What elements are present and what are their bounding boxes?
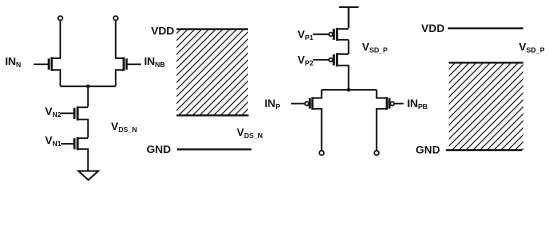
VSD_P level line (top edge of hatched region): [449, 62, 524, 64]
transistor VN1: [61, 137, 88, 171]
svg-text:VN1: VN1: [45, 135, 61, 148]
svg-text:VN2: VN2: [45, 106, 61, 119]
svg-text:VDD: VDD: [421, 23, 444, 35]
svg-text:VP1: VP1: [298, 29, 314, 42]
terminal circle IN_P drain: [319, 151, 324, 156]
svg-text:VDD: VDD: [151, 26, 174, 38]
svg-text:GND: GND: [147, 144, 172, 156]
junction dot PMOS common source node: [347, 88, 351, 92]
svg-text:VP2: VP2: [298, 54, 314, 67]
wire common source (IN_P / IN_PB): [322, 89, 377, 91]
svg-text:VSD_P: VSD_P: [362, 42, 388, 55]
svg-text:VDS_N: VDS_N: [237, 127, 263, 140]
transistor IN_NB: [116, 20, 141, 86]
svg-text:INPB: INPB: [407, 98, 428, 111]
wire VP1 drain to VP2 source: [348, 40, 350, 54]
svg-text:INN: INN: [5, 56, 21, 69]
VDD rail (PMOS circuit): [339, 7, 359, 28]
svg-text:VSD_P: VSD_P: [519, 42, 545, 55]
transistor IN_PB: [377, 90, 404, 151]
terminal circle IN_NB drain: [114, 16, 118, 20]
terminal circle IN_PB drain: [374, 151, 379, 156]
svg-text:VDS_N: VDS_N: [111, 121, 137, 134]
transistor VP2: [313, 53, 349, 90]
wire common source node (NMOS pair): [60, 85, 115, 87]
hatched region PMOS output range: [449, 63, 524, 150]
terminal circle IN_N drain: [58, 16, 62, 20]
transistor VN2: [61, 106, 88, 138]
GND level line (NMOS diagram): [177, 148, 252, 150]
VDD level line (NMOS diagram, top edge): [177, 28, 249, 30]
transistor VP1: [313, 28, 349, 41]
wire tail node to VN2 drain: [87, 86, 89, 107]
transistor IN_P: [291, 90, 322, 151]
svg-text:INNB: INNB: [144, 56, 165, 69]
junction dot tail node: [86, 85, 90, 89]
VDD level line (PMOS diagram): [448, 27, 523, 29]
VDS_N level line (bottom edge of hatched region): [177, 114, 249, 116]
GND level line (PMOS diagram, bottom edge): [446, 149, 522, 151]
transistor IN_N: [34, 20, 61, 86]
svg-text:INP: INP: [265, 98, 281, 111]
hatched region NMOS output range: [177, 29, 249, 115]
ground: [78, 171, 98, 180]
svg-text:GND: GND: [416, 145, 441, 157]
